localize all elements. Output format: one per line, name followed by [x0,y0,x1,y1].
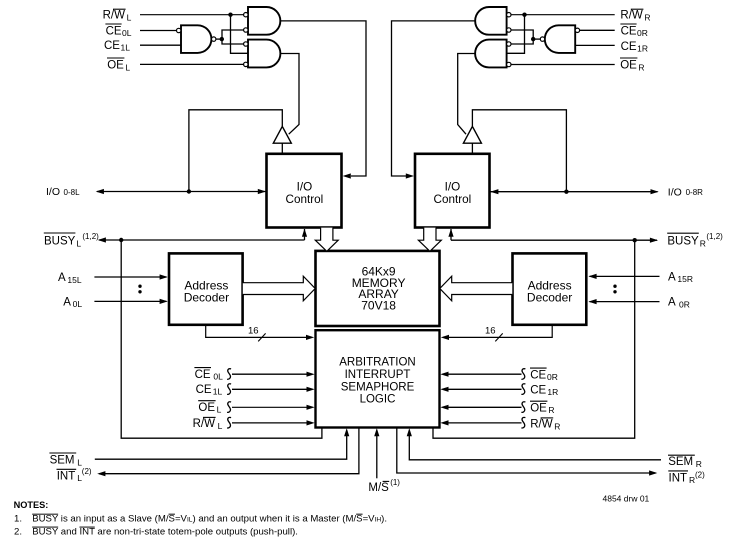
wire BUSYL up into I/O control [304,229,306,240]
U4 output bubble [540,37,544,41]
label R/WR [620,9,650,22]
wire BUSYL to arbitration [121,240,322,438]
svg-text:INTERRUPT: INTERRUPT [345,369,411,381]
svg-text:M/S: M/S [368,482,389,494]
svg-text:16: 16 [485,326,496,337]
wire CE0R to arbitration [448,373,522,375]
svg-text:A: A [58,272,66,284]
wire T1 to I/O control top [281,143,283,154]
svg-text:0L: 0L [73,299,83,309]
svg-text:R: R [548,405,554,415]
wire U1 out to U2 [222,30,244,39]
U5 input bubble 2 [507,28,511,32]
node U1 output junction [220,37,224,41]
wire I/O 0-8L [97,191,266,193]
wire A0R [590,301,660,303]
svg-text:Control: Control [434,193,472,206]
and gate U3 [248,40,280,68]
label OEL [107,58,130,72]
label CE0R arbitration [521,368,557,382]
svg-text:15R: 15R [677,274,693,284]
label BUSYR [667,232,723,248]
wire A0L [94,300,166,302]
svg-text:(1,2): (1,2) [82,232,99,241]
wire U1 out to U3 [222,39,244,44]
block arbitration logic [316,330,440,427]
wire U4 out to U6 [511,39,533,44]
svg-text:CE: CE [104,40,120,52]
U1 input bubble [177,28,181,32]
label R/WL [103,9,132,22]
wire U3 output to buffer enable [280,54,299,135]
U2 input bubble 1 [244,13,248,17]
arrow I/O 0-8R into right I/O control [490,189,498,194]
svg-text:0L: 0L [122,28,132,38]
svg-text:R: R [644,13,650,23]
label BUSYL [44,232,99,248]
arrow BUSYL into I/O control bottom [302,229,307,237]
note 1 [14,514,387,525]
arrow BUSYL left end [98,237,106,242]
svg-text:OE: OE [530,403,547,415]
block left address decoder [169,253,243,324]
svg-text:CE: CE [530,370,546,382]
wire T1 feedback loop [189,110,282,192]
svg-text:1.: 1. [14,514,22,525]
svg-text:0L: 0L [213,372,223,382]
label CE0R [620,24,647,38]
wire CE0L [140,30,177,32]
wire INTL [99,428,359,474]
svg-text:(1,2): (1,2) [706,232,723,241]
node left address ellipsis [138,285,141,294]
wire CE0L to arbitration [232,373,308,375]
wire BUSYR to arbitration [433,240,635,438]
wire U4 output [533,38,540,40]
svg-text:OE: OE [198,402,215,414]
svg-text:L: L [76,238,81,248]
svg-text:0R: 0R [637,28,648,38]
U6 input bubble 3 [507,62,511,66]
wire U6 output to buffer enable [458,54,476,135]
block right I/O Control [415,154,490,228]
arrow A0L into decoder [160,299,168,304]
node BUSYL junction [119,238,123,242]
svg-text:INT: INT [669,472,688,484]
wire M/S [376,436,378,478]
svg-text:ARBITRATION: ARBITRATION [339,356,415,368]
label R/WR arbitration [521,417,560,431]
label I/O 0-8L [46,186,80,198]
nand gate U1 [181,25,211,53]
svg-text:CE: CE [196,384,212,396]
label CE1L [104,40,130,53]
svg-text:0R: 0R [547,372,558,382]
label A0R [668,297,690,310]
svg-text:BUSY is an input as a Slave (M: BUSY is an input as a Slave (M/S=VIL) an… [32,514,387,525]
svg-text:1R: 1R [547,387,558,397]
svg-text:R/W: R/W [620,10,643,22]
bus arrow right I/O control to memory [418,228,441,252]
label SEMR [668,455,702,469]
label I/O 0-8R [668,186,703,198]
svg-text:I/O: I/O [445,181,461,194]
wire R/WL [140,14,244,16]
svg-text:4854 drw 01: 4854 drw 01 [603,494,650,504]
svg-text:R/W: R/W [103,10,126,22]
wire BUSYR [451,239,657,241]
svg-text:L: L [217,405,222,415]
svg-text:CE: CE [195,369,211,381]
wire R/WL branch to gate U3 [231,15,249,54]
arrow INTL left end [97,471,105,476]
svg-text:16: 16 [248,326,259,337]
note 2 [14,527,298,538]
svg-text:INT: INT [57,470,76,482]
wire CE1L to arbitration [232,388,308,390]
node R/WL junction [228,13,232,17]
bus arrow left I/O control to memory [315,228,338,252]
svg-text:(2): (2) [695,471,705,480]
wire I/O 0-8R [491,191,658,193]
arrow A15R into decoder [588,274,596,279]
arrow into left I/O control right edge [343,173,351,178]
and gate U5 [475,7,506,35]
node BUSYR junction [633,238,637,242]
svg-text:I/O: I/O [297,181,313,194]
svg-text:I/O: I/O [668,186,682,198]
wire A15R [590,275,660,277]
arrow M/S into arbitration bottom [374,428,379,436]
U6 input bubble 1 [507,42,511,46]
wire U2 output to left I/O control [280,21,366,176]
U3 input bubble 1 [244,42,248,46]
bus arrow left decoder to memory [243,276,315,301]
U3 input bubble 3 [244,62,248,66]
node R/WR junction [522,13,526,17]
svg-text:R: R [700,239,706,249]
wire U4 out to U5 [511,30,533,39]
arrow SEML into arbitration bottom [344,428,349,436]
svg-text:SEM: SEM [50,454,75,466]
svg-text:Decoder: Decoder [184,291,229,305]
arrow OEL into arbitration [307,405,315,410]
wire R/WR [511,14,615,16]
svg-text:CE: CE [530,385,546,397]
arrow left 16 bus into arbitration [306,335,314,340]
wire R/WR branch to gate U6 [507,15,525,54]
wire R/WR to arbitration [448,422,522,424]
arrow SEMR into arbitration bottom [407,428,412,436]
arrow OER into arbitration [440,405,448,410]
svg-text:SEM: SEM [668,456,693,468]
wire OEL [140,63,244,65]
wire U1 output [216,38,222,40]
wire right 16 bus [443,325,552,338]
svg-text:CE: CE [621,41,637,53]
svg-text:BUSY and INT are non-tri-state: BUSY and INT are non-tri-state totem-pol… [32,527,298,538]
label M/S [368,478,400,494]
label A15R [668,271,693,284]
svg-text:LOGIC: LOGIC [360,393,396,405]
svg-text:15L: 15L [67,275,81,285]
svg-text:1L: 1L [213,387,223,397]
U1 output bubble [212,37,216,41]
svg-text:1L: 1L [121,43,131,53]
svg-text:0R: 0R [679,299,690,309]
U5 input bubble 1 [507,13,511,17]
label R/WL arbitration [193,417,232,430]
svg-text:R/W: R/W [530,418,553,430]
svg-text:NOTES:: NOTES: [14,500,49,510]
arrow I/O 0-8L left end [96,189,104,194]
svg-text:CE: CE [621,25,637,37]
wire T2 to I/O control top [471,143,473,154]
U2 input bubble 2 [244,28,248,32]
wire left 16 bus [206,325,312,338]
label SEML [49,453,82,467]
label OEL arbitration [198,401,231,415]
label left bus width 16 [248,326,266,342]
svg-text:BUSY: BUSY [667,236,699,248]
arrow BUSYR into I/O control bottom [448,229,453,237]
svg-text:R: R [638,62,644,72]
svg-text:BUSY: BUSY [44,235,76,247]
svg-text:A: A [668,297,676,309]
wire CE1R [575,44,615,46]
svg-text:(1): (1) [390,478,400,487]
buffer T2 [463,126,481,143]
svg-text:R: R [696,459,702,469]
wire OEL to arbitration [232,406,308,408]
node I/O feedback junction right [564,190,568,194]
wire BUSYL [99,239,305,241]
label OER arbitration [521,401,554,415]
svg-text:0-8R: 0-8R [686,188,704,197]
and gate U6 [475,40,507,68]
arrow CE1L into arbitration [307,387,315,392]
svg-text:(2): (2) [82,467,92,476]
arrow R/WL into arbitration [307,420,315,425]
label right bus width 16 [485,326,503,342]
label A15L [58,272,82,285]
svg-text:SEMAPHORE: SEMAPHORE [341,381,415,393]
label CE0L [105,24,131,38]
wire SEMR [409,436,661,460]
svg-text:I/O: I/O [46,186,60,198]
wire CE1L [140,44,181,46]
arrow into right I/O control left edge [406,173,414,178]
wire A15L [94,276,166,278]
svg-text:L: L [218,421,223,431]
wire R/WL to arbitration [232,422,308,424]
arrow R/WR into arbitration [440,420,448,425]
arrow A15L into decoder [160,274,168,279]
bus arrow right decoder to memory [440,276,513,301]
node I/O feedback junction left [187,189,191,193]
node right address ellipsis [613,285,616,294]
label INTL [57,467,92,483]
arrow I/O 0-8L into left I/O control [258,189,266,194]
arrow right 16 bus into arbitration [441,335,449,340]
label A0L [63,296,82,309]
wire SEML [95,436,347,459]
svg-text:CE: CE [106,25,122,37]
wire CE0R [580,29,615,31]
node U4 output junction [531,37,535,41]
label INTR [668,471,705,486]
svg-text:1R: 1R [637,44,648,54]
svg-text:R: R [554,421,560,431]
label OER [620,58,645,72]
arrow A0R into decoder [588,299,596,304]
wire U5 output to right I/O control [392,21,476,176]
label CE0L arbitration [194,368,231,382]
svg-text:L: L [127,13,132,23]
label CE1R arbitration [521,384,558,397]
svg-text:A: A [63,296,71,308]
svg-text:70V18: 70V18 [361,299,396,313]
wire OER [511,64,615,66]
arrow INTR right end [649,470,657,475]
block left I/O Control [267,154,342,228]
block memory array [316,251,440,326]
nand gate U4 [545,25,575,53]
svg-text:L: L [125,62,130,72]
wire BUSYR up into I/O control [450,229,452,240]
label CE1R [621,41,648,54]
wire CE1R to arbitration [448,388,522,390]
block right address decoder [513,253,587,324]
svg-text:OE: OE [107,59,124,71]
svg-text:2.: 2. [14,527,22,538]
wire OER to arbitration [448,406,522,408]
wire T2 feedback loop [472,110,566,192]
U4 input bubble [575,28,579,32]
arrow I/O 0-8R right end [651,189,659,194]
and gate U2 [248,7,280,35]
wire INTR [397,428,656,474]
label CE1L arbitration [196,384,232,397]
svg-text:Decoder: Decoder [527,291,572,305]
arrow BUSYR right end [650,238,658,243]
svg-text:OE: OE [620,59,637,71]
arrow CE0R into arbitration [440,372,448,377]
buffer T1 [273,126,291,143]
svg-text:Control: Control [286,193,324,206]
svg-text:R/W: R/W [193,418,216,430]
arrow CE1R into arbitration [440,387,448,392]
svg-text:0-8L: 0-8L [64,188,81,197]
arrow CE0L into arbitration [307,372,315,377]
svg-text:A: A [668,271,676,283]
